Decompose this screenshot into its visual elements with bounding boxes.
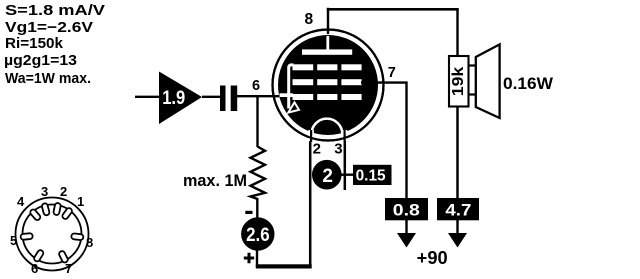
cathode leg white right xyxy=(342,130,348,141)
svg-text:µg2g1=13: µg2g1=13 xyxy=(4,52,77,69)
svg-text:4: 4 xyxy=(17,194,25,209)
grid bracket white left xyxy=(289,65,294,109)
input source triangle 1.9 xyxy=(159,72,202,125)
bias battery circle 2.6 xyxy=(241,217,274,250)
wire battery to bottom rail xyxy=(256,250,258,267)
svg-text:8: 8 xyxy=(305,11,314,28)
current box 0.8 xyxy=(385,198,428,220)
cathode voltage circle 2 xyxy=(312,160,342,190)
current box 0.15 xyxy=(353,165,392,185)
wire pin 3 stub xyxy=(344,140,347,190)
coupling capacitor plate 2 xyxy=(231,86,238,112)
minus sign xyxy=(245,211,252,214)
svg-text:3: 3 xyxy=(41,184,48,199)
svg-text:+90: +90 xyxy=(417,248,448,268)
tube V1 envelope outer circle xyxy=(273,30,384,141)
grid row 1 dashes xyxy=(293,64,314,70)
socket inner circle xyxy=(23,205,82,264)
wire resistor to battery xyxy=(256,198,258,219)
tube outline overlay xyxy=(273,30,384,141)
grid row 2 dashes xyxy=(293,79,314,85)
wire 19k down to 4.7 xyxy=(456,107,459,198)
socket pin 7 xyxy=(58,250,69,263)
svg-text:7: 7 xyxy=(65,261,72,276)
tube inner black disk xyxy=(278,35,378,135)
socket pin 3 xyxy=(41,203,50,216)
socket pin 2 xyxy=(53,203,61,216)
svg-text:2: 2 xyxy=(313,140,321,157)
cathode leg white left xyxy=(308,130,314,141)
svg-text:0.8: 0.8 xyxy=(393,201,420,220)
wire 0.8 to arrow xyxy=(405,220,407,236)
svg-text:0.16W: 0.16W xyxy=(503,74,554,93)
svg-text:1: 1 xyxy=(77,194,84,209)
svg-text:2.6: 2.6 xyxy=(246,225,270,246)
screen grid wire pin 7 xyxy=(361,83,407,198)
grid resistor max 1M zigzag xyxy=(251,147,266,200)
current box 4.7 xyxy=(437,198,479,220)
cathode leg black wires inside xyxy=(310,130,312,142)
speaker stub bottom xyxy=(469,93,476,95)
socket pins xyxy=(20,203,83,264)
svg-text:5: 5 xyxy=(10,233,17,248)
svg-text:6: 6 xyxy=(252,78,260,94)
grid row 3 dashes xyxy=(293,94,314,100)
socket outer circle xyxy=(16,198,89,271)
anode lead white inside xyxy=(326,36,329,50)
anode plate bar xyxy=(302,49,352,54)
svg-text:4.7: 4.7 xyxy=(445,201,471,220)
svg-text:3: 3 xyxy=(334,140,342,157)
svg-text:8: 8 xyxy=(86,235,93,250)
top rail wire xyxy=(327,8,459,11)
wire rail down to 19k xyxy=(456,9,458,56)
svg-text:1.9: 1.9 xyxy=(162,88,185,109)
speaker stub top xyxy=(469,64,476,66)
arrow to +90 left xyxy=(397,233,416,248)
coupling capacitor plate 1 xyxy=(220,86,226,112)
arrow to +90 right xyxy=(448,233,467,248)
load resistor 19k box xyxy=(449,56,469,107)
svg-text:2: 2 xyxy=(60,184,67,199)
grid arrow white xyxy=(288,102,299,112)
svg-text:19k: 19k xyxy=(450,66,467,96)
wire input left xyxy=(135,96,159,98)
wire 4.7 to arrow xyxy=(456,220,458,236)
plus sign xyxy=(244,253,254,263)
wire capacitor to grid pin 6 xyxy=(236,95,281,97)
wire circle 2 to box 0.15 xyxy=(341,173,354,175)
anode wire pin 8 up xyxy=(327,8,329,34)
socket pin 8 xyxy=(71,233,84,240)
wire junction down to grid resistor xyxy=(256,96,258,147)
wire cathode pin 2 down to rail xyxy=(309,140,312,266)
cathode dome white xyxy=(312,119,343,134)
svg-text:6: 6 xyxy=(31,261,38,276)
speaker cone xyxy=(476,44,500,118)
svg-text:Ri=150k: Ri=150k xyxy=(5,35,64,52)
svg-text:2: 2 xyxy=(322,166,333,187)
svg-text:max. 1M: max. 1M xyxy=(183,171,247,190)
socket pin 4 xyxy=(29,208,41,221)
wire triangle to capacitor xyxy=(202,96,221,98)
socket pin 6 xyxy=(33,249,44,262)
grid pin 6 white lead inside xyxy=(280,93,294,97)
bottom rail wire xyxy=(256,264,312,268)
svg-text:S=1.8 mA/V: S=1.8 mA/V xyxy=(5,2,105,19)
svg-text:7: 7 xyxy=(388,65,396,81)
svg-text:0.15: 0.15 xyxy=(356,168,386,185)
socket pin 5 xyxy=(20,233,33,240)
svg-text:Vg1=−2.6V: Vg1=−2.6V xyxy=(5,19,93,36)
svg-text:Wa=1W max.: Wa=1W max. xyxy=(5,70,91,87)
socket pin 1 xyxy=(61,207,73,220)
